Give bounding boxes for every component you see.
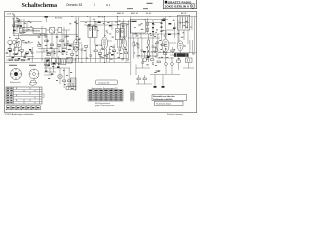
antenna input coil L1 (14, 17, 19, 36)
power supply value labels (46, 61, 73, 89)
mixer tube V1 ECH42 (68, 17, 82, 63)
speaker field coil L5 (183, 57, 194, 68)
stage divider wire mid (130, 17, 132, 75)
alignment stamp box 4 (21, 106, 25, 110)
smoothing electrolytic C12 (45, 58, 50, 66)
tone control resistors R20 R21 (151, 44, 167, 63)
component value labels (8, 17, 194, 73)
svg-text:G: G (191, 4, 193, 8)
svg-text:H 1: H 1 (106, 3, 111, 7)
V4 cathode resistor R17 (171, 47, 174, 53)
heater wiring wires (36, 44, 66, 57)
V2 cathode parts R10 C8 (99, 47, 111, 63)
band switch table (6, 87, 42, 104)
oscillator capacitors C15 C16 (45, 36, 68, 49)
svg-text:EBC 41: EBC 41 (131, 13, 139, 15)
output transformer winding (190, 40, 193, 53)
speaker plug strip (66, 83, 76, 89)
oscillator trimmers C5b C6b (38, 36, 58, 37)
bass capacitor C14 (136, 58, 150, 75)
trimmer capacitor C1 (12, 20, 15, 34)
input switch ladder wires (22, 19, 78, 35)
AVC return wire (20, 28, 40, 32)
AF coupling wire (132, 33, 180, 35)
main schematic frame (5, 12, 197, 113)
decoupling resistor R4 (26, 52, 29, 54)
AF grid resistor chain R13 R14 R15 (148, 34, 150, 62)
volume potentiometer P1 (143, 53, 147, 62)
svg-text:Ersatzteile nur über den: Ersatzteile nur über den (153, 95, 175, 98)
negative feedback wire (157, 57, 174, 59)
svg-text:Fachhandel erhältlich: Fachhandel erhältlich (153, 98, 173, 101)
alignment stamp box 6 (31, 106, 35, 110)
svg-text:/: / (94, 3, 95, 7)
model plate box (96, 80, 118, 85)
supply cluster knots (47, 60, 60, 69)
table tick marks (17, 88, 36, 104)
V1 screen capacitor C7 (81, 44, 84, 63)
output stage junction knots (162, 20, 176, 36)
alignment stamp box 5 (26, 106, 30, 110)
svg-text:Oceanic 53: Oceanic 53 (98, 82, 110, 84)
mains plug marks (136, 75, 165, 88)
wave band switch S1 (13, 20, 25, 33)
lower left parts row resistors R5 R6 (6, 59, 30, 61)
V1 grid knot (62, 45, 72, 52)
fuse F1 (177, 57, 181, 70)
V1 cathode resistor R9 (71, 50, 74, 63)
smoothing electrolytic C13 (52, 58, 56, 72)
rectifier tube V5 AZ41 (177, 41, 183, 53)
coupling capacitor C4 (31, 47, 33, 63)
AVC resistor R12 (137, 38, 139, 59)
mixer grid vertical pair (64, 20, 77, 47)
decoupling parts row mid (85, 40, 128, 63)
svg-text:JOKO BERLIN 6: JOKO BERLIN 6 (165, 4, 190, 8)
filter choke CH1 (59, 59, 66, 65)
svg-text:AZ 41: AZ 41 (181, 12, 187, 15)
note box A (152, 95, 187, 101)
svg-text:ECH 42: ECH 42 (55, 18, 63, 20)
antenna terminal A (14, 15, 15, 19)
svg-text:Oceanic 53: Oceanic 53 (66, 3, 82, 7)
electrolytic C17 (57, 57, 61, 69)
voltage table entries (89, 90, 122, 100)
screen bus wire left (13, 35, 45, 37)
voltage table (88, 90, 123, 101)
oscillator coil box L3 (22, 28, 50, 33)
output transformer T3 (70, 78, 76, 86)
alignment stamp box 1 (6, 106, 10, 110)
tone switch chain (144, 18, 168, 40)
alignment stamp box 3 (16, 106, 20, 110)
svg-text:EL 41: EL 41 (146, 13, 152, 15)
svg-text:Technische Daten: Technische Daten (156, 102, 171, 105)
tuning gang coil circle La (8, 40, 12, 44)
detector load resistor R11 (133, 38, 135, 59)
grid stopper resistor R16 (160, 44, 166, 46)
grid resistor R1 zigzag (22, 42, 33, 44)
T1 secondary wire (95, 44, 101, 46)
cathode resistor R2 (8, 44, 12, 57)
coil dropper wires (42, 26, 67, 60)
power transformer TR1 (178, 15, 195, 30)
stage divider wire mid b (128, 20, 130, 60)
left mid junction knots (9, 49, 31, 58)
output tube V4 EL41 (162, 17, 176, 63)
detector network link wire (128, 37, 160, 39)
supply junction wires (44, 66, 70, 75)
AVC capacitor C9 (141, 38, 144, 59)
output transformer box T4 (67, 58, 77, 64)
tube socket view V1 base (10, 68, 21, 79)
table row labels (7, 88, 13, 104)
left lower junction knots extra (12, 53, 28, 59)
T2 can outline (121, 24, 127, 38)
table side bracket (43, 93, 44, 98)
header annotation marks (127, 3, 153, 9)
mains switch S2 (165, 57, 174, 74)
AVC line wire (28, 58, 128, 60)
bus junction blob (45, 16, 48, 22)
capacitor pairs mid (90, 49, 124, 63)
loudspeaker magnet block (170, 53, 189, 57)
svg-text:Schaltschema: Schaltschema (22, 3, 58, 9)
right vertical feed wires (166, 20, 178, 44)
side stamp mark (131, 92, 134, 102)
svg-text:4T1413 Änderungen vorbehalten: 4T1413 Änderungen vorbehalten (5, 113, 34, 116)
vertical feed wire (75, 58, 77, 91)
screen resistor R3 (20, 47, 23, 57)
HT supply bus wire (5, 16, 197, 18)
IF amp tube V2 EF41 (101, 17, 112, 63)
tone network wire (136, 55, 158, 57)
IF transformer T1 (88, 17, 97, 50)
node dot junction (20, 20, 23, 23)
triode V0 CCF41 (16, 34, 22, 52)
grid wire to gang (22, 21, 42, 23)
coupling capacitor C11 (157, 34, 160, 56)
tone capacitor C10 (152, 38, 155, 58)
alignment stamp box 7 (36, 106, 40, 110)
padder box C5 (50, 28, 58, 34)
switch contact dots (24, 16, 171, 63)
left lower link wire (6, 56, 34, 58)
IF transformer T2 (115, 17, 124, 48)
voltage selector wire (150, 75, 180, 88)
supply dropper resistors R18 R19 (63, 68, 71, 88)
svg-text:Printed in Germany: Printed in Germany (167, 113, 183, 116)
bypass capacitor C3 (13, 44, 16, 57)
tube socket view V2 base (29, 69, 39, 79)
note box B (155, 101, 184, 105)
service stamp logo box (163, 0, 196, 9)
pickup connector box (130, 20, 145, 39)
padder resistors R7 R8 (45, 40, 68, 46)
pilot lamp LP1 (58, 68, 62, 84)
switch position pointer (30, 80, 37, 86)
svg-text:Röhrensockel: Röhrensockel (10, 81, 21, 84)
detector tube V3 EBC41 (121, 19, 126, 59)
ground bus wire (5, 62, 130, 64)
svg-text:EF 41: EF 41 (98, 17, 104, 19)
transformer lead wires (179, 30, 195, 52)
screen feed wire row (80, 22, 131, 31)
svg-text:EAF 41: EAF 41 (117, 12, 125, 15)
alignment stamp box 2 (11, 106, 15, 110)
svg-text:gegen Chassis gemessen: gegen Chassis gemessen (95, 105, 114, 107)
RF coupling coil L2 (19, 19, 23, 36)
padder box C6 (58, 28, 70, 33)
left lower capacitor ticks (6, 53, 30, 60)
stage divider wire (78, 17, 80, 63)
IF stage knots (88, 22, 150, 58)
tuning gang coil circle Lb (12, 40, 16, 44)
right power bus wire (158, 51, 197, 53)
socket area labels (9, 65, 49, 66)
